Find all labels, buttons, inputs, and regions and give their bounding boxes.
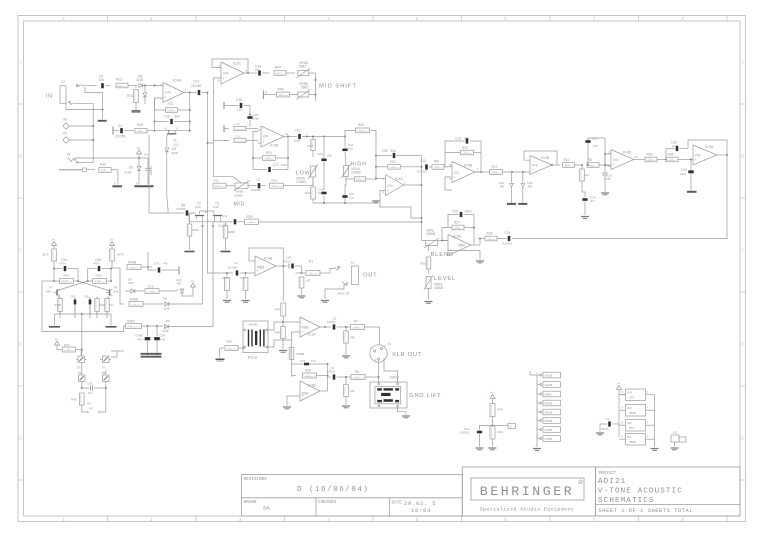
svg-text:2U2/50: 2U2/50 bbox=[502, 242, 512, 246]
ground bar left bbox=[49, 326, 60, 328]
title block BEHRINGER bbox=[462, 467, 595, 516]
resistor R46C bbox=[126, 324, 142, 329]
svg-text:+: + bbox=[223, 77, 225, 81]
bar connector C1 bbox=[112, 127, 114, 135]
svg-text:8: 8 bbox=[681, 517, 684, 522]
jack tip contact X2 bbox=[334, 267, 340, 270]
svg-text:R26B: R26B bbox=[228, 230, 235, 234]
resistor R43 bbox=[53, 269, 55, 281]
ground bar C33 bbox=[687, 191, 697, 193]
svg-text:10n: 10n bbox=[88, 391, 93, 395]
svg-text:R1: R1 bbox=[309, 260, 313, 264]
svg-text:C29: C29 bbox=[382, 149, 388, 153]
transformer windings bbox=[248, 330, 249, 347]
capacitor C42 10n bbox=[81, 382, 83, 389]
svg-text:7: 7 bbox=[593, 16, 596, 21]
jack sleeve contact X2 bbox=[342, 282, 348, 285]
wire osc bottom bbox=[82, 411, 88, 413]
svg-text:1k: 1k bbox=[392, 165, 396, 169]
crossover wires bbox=[78, 281, 109, 291]
wire X4 to C4 row bbox=[76, 157, 149, 159]
svg-text:R8: R8 bbox=[351, 336, 355, 340]
bar connector right bbox=[178, 267, 180, 275]
svg-text:X3: X3 bbox=[61, 80, 65, 84]
ground R34 bbox=[489, 447, 497, 449]
wire IC2C out bbox=[244, 72, 257, 74]
wire IC4B out bbox=[475, 171, 490, 173]
svg-text:100kB: 100kB bbox=[351, 171, 361, 175]
ground R2 bbox=[298, 295, 306, 297]
diode D5 4148 bbox=[139, 84, 143, 88]
long feedback wire right bbox=[512, 155, 727, 239]
svg-text:IC2B: IC2B bbox=[541, 156, 550, 160]
svg-text:R46B: R46B bbox=[128, 261, 136, 265]
resistor R45 bbox=[277, 92, 290, 97]
svg-text:R2: R2 bbox=[307, 279, 311, 283]
resistor R14 vertical bbox=[135, 86, 137, 89]
svg-text:10: 10 bbox=[217, 79, 221, 83]
resistor R5 vertical bbox=[345, 377, 347, 384]
svg-text:VR2B: VR2B bbox=[545, 402, 553, 406]
svg-text:R4C: R4C bbox=[305, 191, 312, 195]
bottom bus wire bbox=[55, 313, 112, 315]
pot VR1A 100kB bbox=[344, 166, 349, 177]
wire R26 left bbox=[208, 142, 214, 144]
capacitor C23 10n bbox=[292, 363, 304, 365]
capacitor C39 47n bbox=[156, 326, 158, 336]
wire C18 to R1 row bbox=[301, 266, 303, 273]
svg-text:R38: R38 bbox=[275, 331, 281, 335]
svg-text:VR4B: VR4B bbox=[545, 428, 553, 432]
svg-text:220R: 220R bbox=[95, 279, 102, 283]
wire sleeve rail bend bbox=[78, 162, 93, 164]
wire node to C1/R15 row bbox=[154, 122, 156, 131]
svg-text:C37: C37 bbox=[70, 295, 75, 299]
svg-text:MID SHIFT: MID SHIFT bbox=[319, 84, 357, 90]
svg-text:R24: R24 bbox=[235, 122, 241, 126]
svg-text:C19: C19 bbox=[455, 137, 461, 141]
svg-text:2k70: 2k70 bbox=[117, 253, 124, 257]
svg-text:400kB: 400kB bbox=[434, 286, 443, 290]
resistor R35 bbox=[645, 157, 657, 162]
capacitor C16 470P chain bbox=[604, 154, 606, 172]
capacitor C2 bbox=[248, 185, 257, 187]
supply LD1 bbox=[190, 283, 195, 287]
wire left rail bbox=[42, 280, 54, 282]
svg-text:R19: R19 bbox=[148, 285, 154, 289]
wire X2 sleeve to gnd bbox=[325, 285, 344, 300]
wire gyrator node to IC2C minus bbox=[214, 78, 222, 129]
svg-text:074: 074 bbox=[695, 154, 701, 158]
supply V+ IC blocks bbox=[616, 386, 621, 390]
svg-text:5k6: 5k6 bbox=[359, 129, 364, 133]
svg-text:R46A: R46A bbox=[130, 298, 139, 302]
wire C13 node down bbox=[207, 93, 209, 186]
svg-text:4558: 4558 bbox=[257, 266, 264, 270]
svg-text:10n: 10n bbox=[237, 108, 242, 112]
IC power rail right bbox=[654, 395, 656, 448]
svg-text:5: 5 bbox=[416, 517, 419, 522]
wire T2 drain to D8 bbox=[149, 209, 170, 213]
jack sleeve contact bbox=[69, 102, 73, 105]
ground R14 bbox=[132, 110, 141, 112]
cap bar R45 bbox=[263, 91, 265, 100]
svg-text:10k: 10k bbox=[648, 158, 653, 162]
resistor R28 bbox=[480, 238, 485, 240]
svg-text:V+: V+ bbox=[52, 237, 56, 241]
svg-text:3: 3 bbox=[239, 517, 242, 522]
main node vertical bbox=[421, 156, 423, 241]
wire IC2B out bbox=[552, 164, 560, 166]
svg-text:C27: C27 bbox=[273, 163, 279, 167]
svg-text:C10: C10 bbox=[295, 129, 301, 133]
capacitor C15 bbox=[425, 164, 428, 169]
svg-text:R23: R23 bbox=[266, 151, 272, 155]
feedback wire IC3D bbox=[249, 248, 283, 266]
svg-text:C35: C35 bbox=[236, 98, 242, 102]
svg-text:20.02. 5: 20.02. 5 bbox=[404, 501, 436, 507]
resistor 2k70 left vertical bbox=[53, 246, 55, 250]
svg-text:22k: 22k bbox=[455, 226, 460, 230]
junction LOW net bbox=[313, 202, 345, 204]
resistor R34 vertical bbox=[490, 426, 495, 439]
svg-text:12: 12 bbox=[258, 128, 262, 132]
svg-text:14: 14 bbox=[635, 155, 639, 159]
svg-text:PROJECT: PROJECT bbox=[599, 472, 617, 476]
resistor R46B bbox=[112, 267, 120, 269]
svg-text:10:03: 10:03 bbox=[411, 508, 431, 514]
svg-text:R25: R25 bbox=[305, 369, 311, 373]
ground R26C bbox=[223, 300, 231, 302]
svg-text:+: + bbox=[257, 269, 259, 273]
wire R7 to XLR bbox=[379, 327, 381, 345]
ground X2 bbox=[321, 300, 329, 302]
svg-text:IC3A: IC3A bbox=[453, 235, 462, 239]
svg-text:R15: R15 bbox=[137, 123, 143, 127]
resistor R13 bbox=[116, 83, 128, 88]
svg-text:2U2/50: 2U2/50 bbox=[115, 135, 126, 139]
capacitor C28 100n bbox=[247, 116, 252, 119]
svg-text:100kB: 100kB bbox=[426, 232, 435, 236]
jack ring contact bbox=[84, 87, 85, 89]
svg-text:D (16/06/04): D (16/06/04) bbox=[297, 486, 369, 494]
svg-text:R4A: R4A bbox=[308, 144, 314, 148]
svg-text:6: 6 bbox=[504, 16, 507, 21]
wire feedback IC4A bbox=[155, 98, 166, 110]
svg-text:1: 1 bbox=[63, 16, 66, 21]
feedback IC1B bbox=[320, 390, 328, 392]
clamp diode bbox=[144, 86, 146, 93]
resistor R4C vertical bbox=[311, 187, 316, 199]
svg-text:R22: R22 bbox=[168, 102, 174, 106]
svg-text:47N: 47N bbox=[137, 338, 143, 342]
svg-text:V+: V+ bbox=[110, 237, 114, 241]
svg-text:(V): (V) bbox=[87, 402, 91, 406]
svg-text:IC3A: IC3A bbox=[705, 145, 714, 149]
svg-text:Sw1B: Sw1B bbox=[545, 374, 553, 378]
resistor R25 bbox=[292, 375, 297, 377]
capacitor C20 22n bbox=[323, 137, 325, 158]
wire output IC4A bbox=[184, 92, 197, 94]
op-amp IC4A bbox=[163, 83, 184, 103]
connector X8 bbox=[103, 375, 110, 382]
connector ladder rail bbox=[536, 375, 538, 447]
svg-text:074: 074 bbox=[532, 164, 538, 168]
diode D3 4148 bbox=[165, 148, 169, 152]
op-amp IC2C bbox=[221, 62, 244, 84]
svg-text:2k2: 2k2 bbox=[279, 93, 284, 97]
svg-text:074: 074 bbox=[388, 184, 394, 188]
capacitor C14 bbox=[508, 236, 511, 241]
connector X2 jack bbox=[352, 266, 359, 285]
svg-text:OUT: OUT bbox=[363, 273, 377, 279]
svg-text:IC3: IC3 bbox=[627, 406, 632, 410]
ground C16 bbox=[601, 192, 609, 194]
capacitor C30 47n bbox=[258, 70, 261, 75]
svg-text:100n: 100n bbox=[253, 117, 260, 121]
svg-text:X4: X4 bbox=[67, 153, 71, 157]
svg-text:B: B bbox=[741, 154, 744, 159]
svg-text:CHECKED: CHECKED bbox=[318, 500, 336, 505]
revisions block bbox=[242, 475, 463, 517]
svg-text:V+: V+ bbox=[617, 381, 621, 385]
wire final out bbox=[717, 154, 727, 156]
svg-text:IC2: IC2 bbox=[627, 421, 632, 425]
svg-text:+: + bbox=[263, 140, 265, 144]
svg-text:R10: R10 bbox=[564, 158, 570, 162]
svg-text:VR3B: VR3B bbox=[545, 419, 553, 423]
svg-text:A: A bbox=[510, 425, 512, 429]
wire into R37 bbox=[220, 347, 224, 349]
svg-text:IC1B: IC1B bbox=[308, 384, 317, 388]
resistor R15b vertical bbox=[426, 257, 431, 269]
svg-text:X9: X9 bbox=[78, 371, 82, 375]
wire IC3B out bbox=[284, 136, 297, 138]
svg-text:IC3B: IC3B bbox=[270, 144, 279, 148]
svg-text:IC4A: IC4A bbox=[173, 79, 182, 83]
op-amp IC3A bbox=[448, 235, 471, 256]
ground R8 bbox=[342, 355, 350, 357]
svg-text:R28: R28 bbox=[487, 232, 493, 236]
svg-text:1k: 1k bbox=[250, 220, 254, 224]
wire R24 node down bbox=[214, 129, 234, 177]
resistor R15 bbox=[135, 128, 147, 133]
pot VR4A LEVEL bbox=[426, 277, 431, 289]
op-amp IC1B bbox=[300, 381, 320, 401]
svg-text:R6: R6 bbox=[355, 370, 359, 374]
svg-text:+: + bbox=[165, 96, 167, 100]
wire VR5 rail bbox=[315, 73, 317, 101]
svg-text:BEHRINGER: BEHRINGER bbox=[480, 484, 575, 499]
svg-text:1k: 1k bbox=[310, 271, 314, 275]
ground HIGH net bbox=[372, 200, 380, 202]
resistor R43b vertical bbox=[245, 273, 247, 276]
svg-text:1N: 1N bbox=[67, 348, 71, 352]
resistor R26B vertical bbox=[225, 222, 227, 226]
ground bar D2 C4 bbox=[134, 185, 153, 187]
svg-text:R29: R29 bbox=[247, 215, 253, 219]
svg-text:R3P: R3P bbox=[275, 308, 281, 312]
svg-text:14: 14 bbox=[285, 132, 289, 136]
svg-text:4148: 4148 bbox=[136, 78, 143, 82]
feedback R23 bbox=[253, 132, 262, 159]
svg-text:X5: X5 bbox=[63, 132, 67, 136]
svg-text:R26A: R26A bbox=[192, 228, 199, 232]
transistor T3 J112 bbox=[213, 215, 222, 217]
svg-text:PAn: PAn bbox=[248, 355, 258, 360]
capacitor C40B 47n bbox=[147, 326, 149, 336]
svg-text:VR1B: VR1B bbox=[545, 411, 553, 415]
svg-text:V-TONE ACOUSTIC: V-TONE ACOUSTIC bbox=[598, 488, 683, 496]
svg-text:10n: 10n bbox=[593, 144, 598, 148]
ground bar X3 bbox=[98, 120, 107, 122]
resistor R2 vertical bbox=[299, 277, 304, 288]
svg-text:X7: X7 bbox=[77, 366, 81, 370]
resistor R12 bbox=[270, 183, 284, 188]
svg-text:1k3: 1k3 bbox=[356, 177, 361, 181]
svg-text:R40: R40 bbox=[71, 398, 77, 402]
ground C9 bbox=[596, 432, 604, 434]
svg-text:IC1A: IC1A bbox=[308, 333, 317, 337]
svg-text:12: 12 bbox=[608, 164, 612, 168]
svg-text:074: 074 bbox=[263, 135, 269, 139]
svg-text:R46C: R46C bbox=[127, 320, 136, 324]
svg-text:C: C bbox=[19, 248, 22, 253]
svg-text:D: D bbox=[741, 342, 744, 347]
resistor R17 bbox=[490, 170, 503, 175]
op-amp IC1A bbox=[300, 317, 320, 337]
svg-text:R41: R41 bbox=[97, 274, 103, 278]
svg-text:4558: 4558 bbox=[629, 411, 636, 415]
svg-text:E: E bbox=[266, 91, 268, 95]
svg-text:R44: R44 bbox=[275, 66, 281, 70]
ground C12 bbox=[476, 447, 484, 449]
feedback box IC2B bbox=[524, 151, 557, 165]
wire SW2A to ground bbox=[398, 407, 406, 415]
resistor R41 bbox=[110, 269, 112, 281]
svg-text:C36: C36 bbox=[84, 295, 89, 299]
feedback wire to out bbox=[688, 140, 727, 155]
resistor R3 bbox=[587, 163, 599, 168]
svg-text:GND LIFT: GND LIFT bbox=[409, 393, 441, 399]
svg-text:2k2: 2k2 bbox=[276, 71, 281, 75]
svg-text:10k: 10k bbox=[117, 84, 122, 88]
svg-text:+: + bbox=[532, 168, 534, 172]
op-amp IC3D bbox=[255, 256, 276, 276]
wire blend wiper bbox=[428, 246, 430, 252]
svg-text:R26C: R26C bbox=[222, 276, 229, 280]
svg-text:SW2A: SW2A bbox=[390, 376, 400, 380]
svg-text:1k: 1k bbox=[488, 237, 492, 241]
svg-text:2U2/50: 2U2/50 bbox=[417, 170, 427, 174]
resistor R24 bbox=[224, 128, 229, 130]
supply V+ right bbox=[109, 242, 114, 246]
svg-text:50kC: 50kC bbox=[299, 65, 307, 69]
svg-text:C14: C14 bbox=[505, 231, 511, 235]
capacitor C22 10n bbox=[344, 137, 346, 148]
svg-text:220/16: 220/16 bbox=[149, 166, 153, 175]
transistor X7a bbox=[78, 356, 85, 363]
svg-text:100n: 100n bbox=[294, 139, 301, 143]
svg-text:X6: X6 bbox=[63, 118, 67, 122]
op-amp IC3B bbox=[261, 126, 284, 147]
jack tip contact bbox=[77, 84, 81, 87]
svg-text:E: E bbox=[19, 436, 22, 441]
svg-text:33k: 33k bbox=[463, 151, 468, 155]
svg-text:680: 680 bbox=[354, 325, 359, 329]
resistor R10 bbox=[563, 163, 575, 168]
wire T2 to D4 row bbox=[202, 222, 204, 304]
wire IC4C noninv node bbox=[380, 207, 422, 218]
capacitor C13 bbox=[198, 90, 201, 95]
svg-text:R31: R31 bbox=[390, 160, 396, 164]
resistor 220R vertical bbox=[95, 299, 99, 312]
feedback wire IC2C bbox=[212, 59, 248, 73]
capacitor C27 100n bbox=[252, 158, 254, 170]
wire osc connect bbox=[120, 350, 124, 352]
capacitor C4 220/16 bbox=[147, 158, 149, 168]
wires X5 X6 bbox=[69, 125, 93, 127]
resistor R46A bbox=[120, 268, 124, 304]
svg-text:4: 4 bbox=[327, 16, 330, 21]
wire from input rows down bbox=[148, 135, 150, 209]
svg-text:92k: 92k bbox=[565, 163, 570, 167]
svg-text:R27: R27 bbox=[454, 221, 460, 225]
svg-text:R43: R43 bbox=[64, 274, 70, 278]
svg-text:BLEND: BLEND bbox=[431, 252, 454, 258]
pot VR2A 100kB bbox=[311, 166, 316, 177]
svg-text:IC3B: IC3B bbox=[264, 257, 273, 261]
ladder box VR3B bbox=[543, 418, 561, 424]
svg-text:V+: V+ bbox=[55, 337, 59, 341]
power block IC2 bbox=[626, 420, 646, 432]
resistor R33 vertical bbox=[492, 399, 494, 404]
resistor R38 vertical bbox=[282, 322, 284, 327]
transistor T1 J112 bbox=[167, 133, 176, 135]
svg-text:+: + bbox=[613, 163, 615, 167]
svg-text:R34: R34 bbox=[498, 430, 504, 434]
svg-text:Sw2B: Sw2B bbox=[545, 383, 553, 387]
wire T2 legs to bus bbox=[202, 219, 204, 222]
ladder box Sw2B bbox=[543, 382, 561, 388]
wire IC4C plus input bbox=[380, 191, 386, 208]
wire T1 gate down bbox=[167, 135, 168, 148]
wire divider right bracket bbox=[493, 425, 509, 427]
svg-text:C25: C25 bbox=[452, 210, 458, 214]
svg-text:A: A bbox=[19, 60, 22, 65]
svg-text:4: 4 bbox=[327, 517, 330, 522]
diode D5 4148 bbox=[164, 325, 168, 329]
ladder top wire bbox=[530, 371, 537, 375]
svg-text:R47B: R47B bbox=[55, 303, 62, 307]
svg-text:10n: 10n bbox=[311, 359, 316, 363]
svg-text:33n: 33n bbox=[175, 115, 181, 119]
resistor R39b bbox=[145, 289, 159, 294]
svg-text:R13: R13 bbox=[116, 78, 122, 82]
ground bar right bbox=[106, 326, 117, 328]
svg-text:220: 220 bbox=[272, 184, 277, 188]
svg-text:DRAWN: DRAWN bbox=[244, 500, 257, 505]
svg-text:REVISIONS: REVISIONS bbox=[244, 477, 268, 482]
svg-text:X1: X1 bbox=[388, 342, 392, 346]
svg-text:C: C bbox=[741, 248, 744, 253]
resistor R26C vertical bbox=[226, 273, 228, 276]
svg-text:C15: C15 bbox=[420, 159, 426, 163]
svg-text:6: 6 bbox=[504, 517, 507, 522]
power block IC1 bbox=[626, 434, 646, 446]
svg-text:22n: 22n bbox=[99, 78, 105, 82]
svg-text:100k: 100k bbox=[167, 108, 174, 112]
